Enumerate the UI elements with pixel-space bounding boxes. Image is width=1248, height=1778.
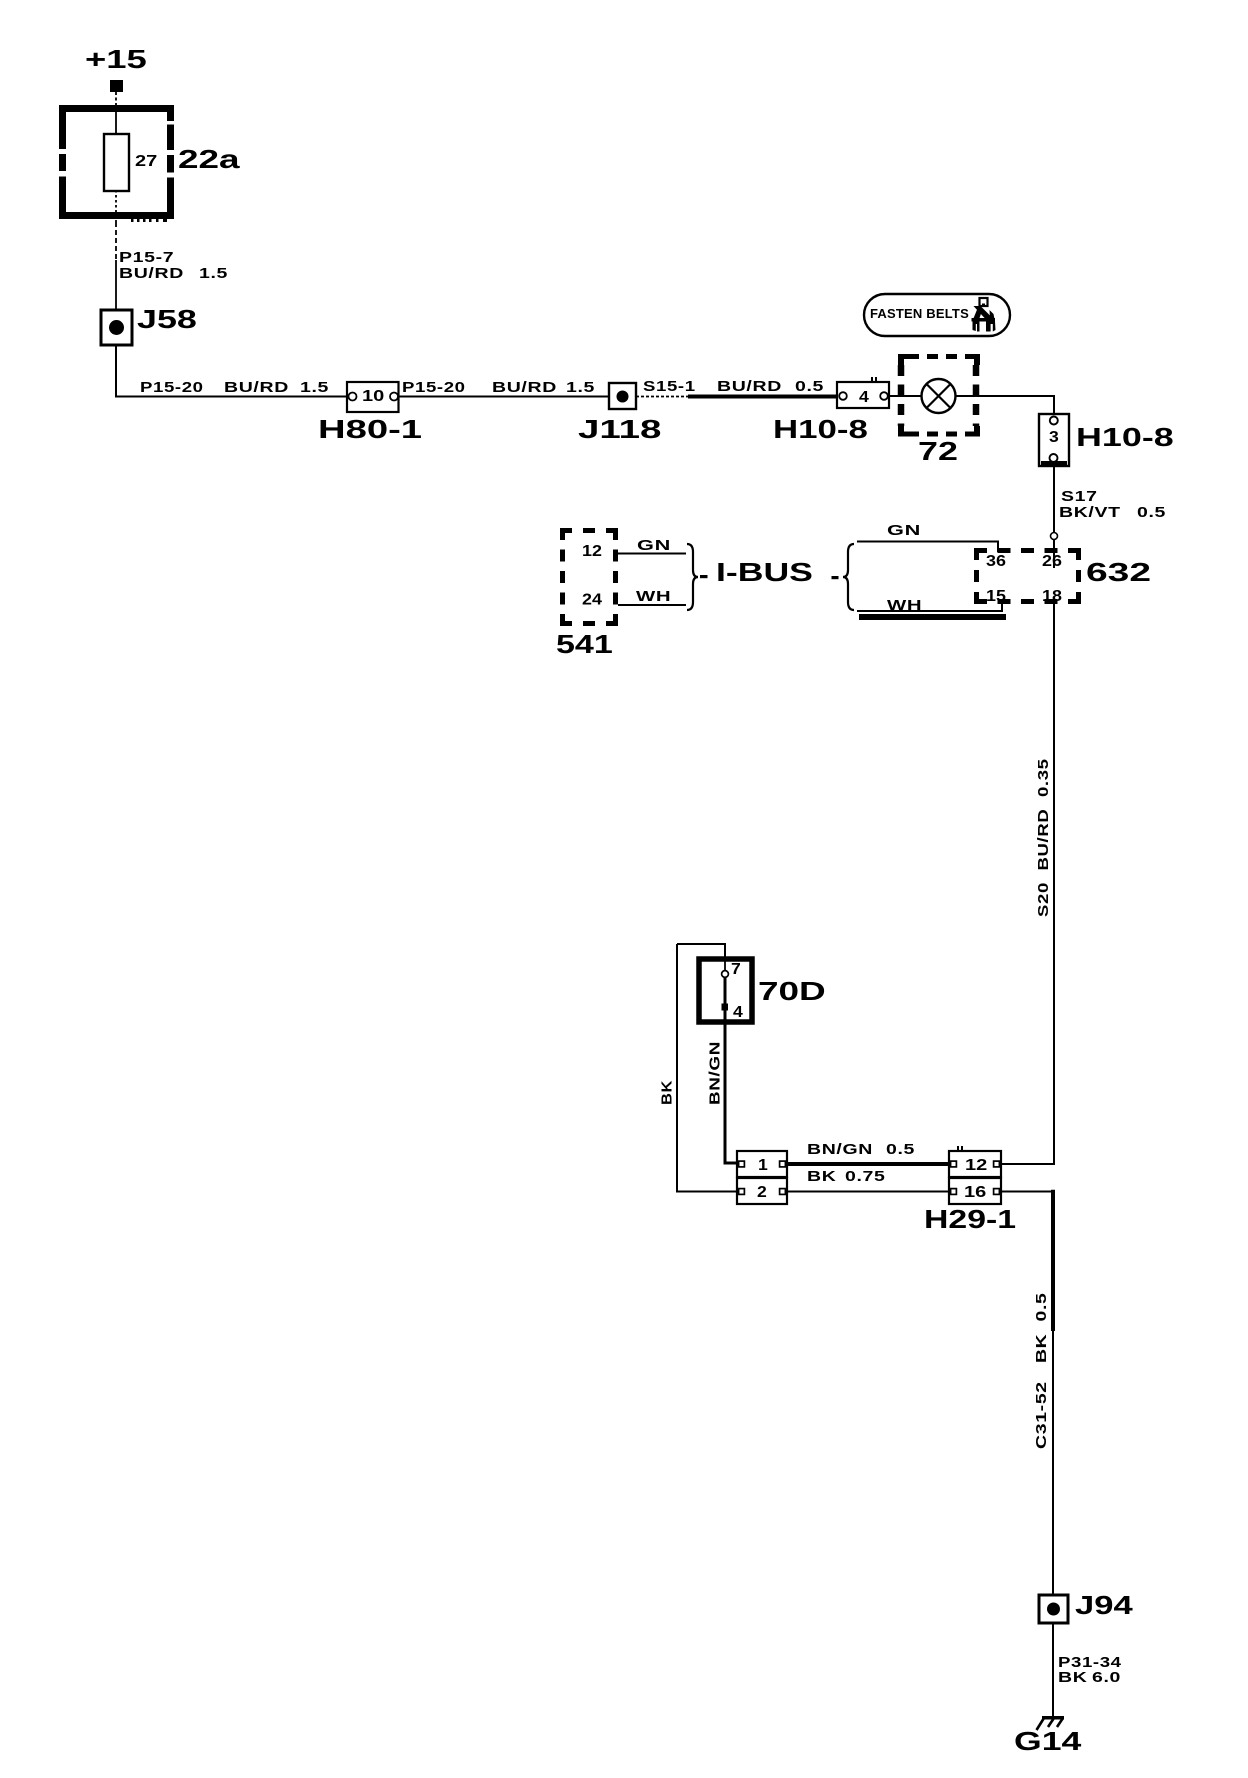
wire H29-1 pin 16 down to J94 (C31-52 BK 0.5) [1001, 1190, 1053, 1595]
svg-text:0.5: 0.5 [886, 1140, 915, 1157]
svg-text:12: 12 [582, 542, 602, 560]
label P15-7 BU/RD 1.5 [119, 248, 228, 281]
wire H80-1 to J118 [399, 396, 610, 398]
connector H29-1 pin 12 [949, 1146, 1001, 1177]
svg-text:BU/RD: BU/RD [119, 264, 184, 281]
svg-text:4: 4 [733, 1003, 743, 1021]
svg-text:27: 27 [135, 152, 157, 170]
svg-text:WH: WH [636, 588, 671, 605]
svg-text:GN: GN [887, 521, 921, 538]
svg-text:72: 72 [918, 437, 958, 466]
svg-text:BK: BK [659, 1080, 675, 1105]
svg-text:3: 3 [1049, 428, 1059, 446]
wire +15 through fuse to J58 [115, 92, 117, 310]
brace left of 632 wires [843, 544, 854, 610]
label P15-20 BU/RD 1.5 (left) [140, 378, 329, 395]
connector H80-1 pin 10 [347, 382, 399, 412]
wire J58 to H80-1 [116, 345, 347, 397]
svg-text:J118: J118 [578, 414, 661, 443]
svg-text:22a: 22a [178, 144, 240, 173]
wire H29-1 pin 12 to S20 node [1001, 1163, 1055, 1165]
svg-text:1.5: 1.5 [566, 378, 595, 395]
svg-text:632: 632 [1086, 558, 1151, 587]
label I-BUS [700, 558, 839, 587]
wire GN to 632 pin 36 [857, 542, 998, 553]
indicator lamp unit 72 (dashed box) [898, 354, 980, 437]
svg-text:+15: +15 [85, 44, 147, 74]
svg-text:BU/RD: BU/RD [492, 378, 557, 395]
svg-text:H29-1: H29-1 [924, 1206, 1016, 1234]
svg-text:1: 1 [758, 1156, 768, 1174]
wire BK 0.75 [787, 1191, 949, 1193]
svg-text:1.5: 1.5 [199, 264, 228, 281]
wire 541 pin 24 WH [618, 604, 686, 606]
svg-text:WH: WH [887, 597, 922, 614]
svg-text:541: 541 [556, 631, 613, 659]
wire 541 pin 12 GN [618, 553, 686, 555]
svg-text:C31-52 BK 0.5: C31-52 BK 0.5 [1032, 1292, 1049, 1449]
svg-text:10: 10 [362, 387, 384, 405]
connector H10-8 pin 3 [1039, 414, 1069, 466]
svg-text:J58: J58 [137, 305, 197, 334]
connector pin 1 [737, 1151, 787, 1177]
svg-text:7: 7 [731, 960, 741, 978]
node +15 supply terminal [85, 44, 147, 92]
fasten-belts person icon [972, 298, 996, 332]
svg-text:FASTEN BELTS: FASTEN BELTS [870, 306, 969, 321]
fuse holder box 22a (dashed) [59, 105, 174, 222]
svg-text:S20 BU/RD 0.35: S20 BU/RD 0.35 [1035, 758, 1052, 917]
unit 541 (dashed box) [560, 528, 618, 626]
splice J118 [609, 383, 636, 409]
svg-text:S15-1: S15-1 [643, 378, 696, 395]
FASTEN BELTS telltale legend [864, 294, 1010, 336]
wire BN/GN 0.5 (bold) [787, 1162, 949, 1166]
wire 632 pin 18 down to H29-1 (S20 BU/RD 0.35) [1053, 604, 1055, 1164]
connector H10-8 pin 4 [837, 377, 889, 408]
label P31-34 BK 6.0 [1058, 1654, 1122, 1686]
svg-text:G14: G14 [1014, 1727, 1082, 1756]
svg-text:18: 18 [1042, 587, 1062, 605]
svg-text:I-BUS: I-BUS [716, 558, 813, 587]
wire J118 to H10-8 (BU/RD 0.5) [636, 396, 837, 398]
svg-text:H10-8: H10-8 [773, 414, 868, 444]
wire J94 to ground [1052, 1623, 1054, 1717]
svg-text:0.5: 0.5 [795, 377, 824, 394]
svg-text:24: 24 [582, 590, 603, 608]
svg-text:H80-1: H80-1 [318, 414, 422, 443]
lamp symbol [889, 379, 956, 413]
svg-text:1.5: 1.5 [300, 378, 329, 395]
unit 632 (dashed box) [974, 548, 1081, 605]
svg-text:S17: S17 [1061, 487, 1098, 504]
label P15-20 BU/RD 1.5 (right) [402, 378, 595, 395]
wire BK from top junction down [677, 944, 737, 1192]
svg-text:6.0: 6.0 [1092, 1668, 1121, 1685]
svg-text:36: 36 [986, 552, 1006, 570]
splice J94 [1039, 1595, 1068, 1623]
svg-text:P15-7: P15-7 [119, 248, 174, 265]
svg-text:BU/RD: BU/RD [717, 377, 782, 394]
svg-text:J94: J94 [1075, 1591, 1133, 1620]
svg-text:2: 2 [757, 1183, 767, 1201]
ground symbol [1037, 1716, 1065, 1730]
wire to 70D pin 7 [677, 944, 725, 958]
svg-text:70D: 70D [758, 976, 826, 1005]
svg-text:15: 15 [986, 587, 1006, 605]
svg-text:0.75: 0.75 [845, 1167, 886, 1184]
splice J58 [101, 310, 132, 345]
connector H29-1 pin 16 [949, 1178, 1001, 1204]
wire 70D pin 4 down (BN/GN) [725, 1023, 737, 1163]
brace right of 541 wires [687, 544, 698, 610]
svg-text:P15-20: P15-20 [402, 379, 466, 396]
svg-text:26: 26 [1042, 552, 1062, 570]
connector pin 2 [737, 1178, 787, 1204]
svg-text:BK: BK [807, 1167, 836, 1184]
label S17 BK/VT 0.5 [1059, 487, 1166, 520]
svg-text:H10-8: H10-8 [1076, 423, 1174, 452]
svg-text:BN/GN: BN/GN [807, 1140, 873, 1157]
fuse 27 [104, 134, 157, 191]
svg-text:GN: GN [637, 536, 671, 553]
svg-text:BN/GN: BN/GN [706, 1041, 723, 1105]
wire lamp to H10-8 pin 3 [956, 396, 1055, 416]
svg-text:BK: BK [1058, 1668, 1087, 1685]
svg-text:BU/RD: BU/RD [224, 378, 289, 395]
svg-text:0.5: 0.5 [1137, 503, 1166, 520]
svg-text:12: 12 [965, 1156, 987, 1174]
wire H10-8 pin 3 to 632 pin 26 (S17 BK/VT 0.5) [1051, 466, 1058, 568]
switch unit 70D [699, 959, 752, 1023]
svg-text:4: 4 [859, 388, 869, 406]
wire WH to 632 pin 15 [857, 604, 1006, 620]
svg-text:P15-20: P15-20 [140, 379, 204, 396]
svg-text:16: 16 [964, 1183, 986, 1201]
svg-text:BK/VT: BK/VT [1059, 503, 1121, 520]
